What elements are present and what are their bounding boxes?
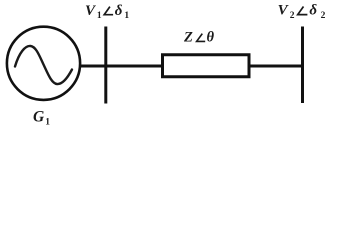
impedance box Z: [163, 55, 250, 77]
generator G1 circle: [7, 27, 80, 100]
svg-text:θ: θ: [207, 29, 215, 45]
svg-text:δ: δ: [309, 3, 317, 19]
svg-text:1: 1: [97, 11, 102, 21]
label Z: angle symbol: [197, 34, 206, 42]
svg-text:V: V: [85, 3, 97, 19]
svg-text:Z: Z: [183, 29, 193, 45]
bus 1 (node V1): [104, 27, 107, 104]
svg-text:V: V: [278, 3, 290, 19]
svg-text:δ: δ: [115, 3, 123, 19]
wire: generator to bus 1 to impedance box: [80, 65, 162, 68]
svg-text:2: 2: [321, 11, 326, 21]
label V1: angle symbol: [104, 7, 113, 15]
svg-text:1: 1: [124, 11, 129, 21]
svg-text:2: 2: [290, 11, 295, 21]
generator sine wave: [15, 46, 72, 84]
svg-text:1: 1: [45, 117, 50, 127]
svg-text:G: G: [33, 108, 45, 125]
wire: impedance box to bus 2: [249, 65, 302, 68]
label V2: angle symbol: [298, 7, 308, 15]
bus 2 (node V2): [301, 27, 304, 104]
